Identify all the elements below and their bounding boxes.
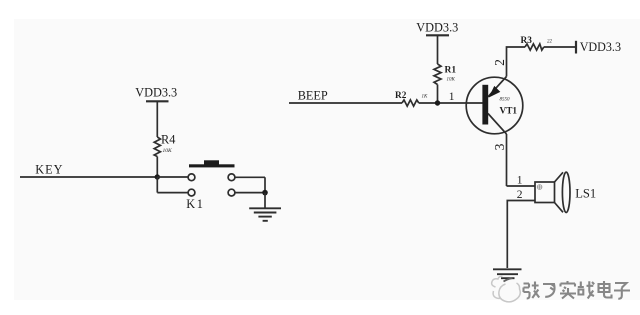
resistor R3: [525, 44, 544, 50]
wire: [437, 35, 439, 64]
node KEY wire: [20, 176, 157, 178]
svg-text:R2: R2: [395, 91, 407, 101]
svg-text:1K: 1K: [422, 95, 429, 100]
watermark logo cloud: [492, 276, 521, 301]
resistor R1: [434, 64, 441, 85]
junction: [155, 174, 160, 179]
svg-text:LS1: LS1: [575, 187, 596, 201]
fei: [543, 284, 555, 297]
shi: [560, 281, 576, 299]
svg-text:10K: 10K: [163, 148, 173, 154]
junction: [262, 190, 268, 196]
wire: [437, 85, 439, 104]
power VDD3.3 (top): [426, 34, 449, 36]
junction: [435, 100, 440, 105]
svg-text:10K: 10K: [447, 78, 456, 83]
svg-text:2: 2: [517, 189, 523, 201]
wire collector down: [506, 134, 508, 186]
resistor R4: [154, 137, 160, 157]
resistor R2: [402, 100, 419, 106]
svg-text:2: 2: [492, 59, 507, 66]
svg-text:VDD3.3: VDD3.3: [135, 86, 177, 100]
power VDD3.3 (left): [146, 100, 169, 102]
svg-text:R3: R3: [521, 36, 533, 46]
wire: [419, 102, 483, 104]
svg-text:VDD3.3: VDD3.3: [416, 21, 458, 35]
wire: [544, 46, 576, 48]
wire emitter to R3: [507, 47, 526, 77]
wire speaker pin 2 to ground: [507, 201, 535, 269]
power VDD3.3 (right): [575, 41, 577, 54]
speaker LS1: [535, 172, 570, 212]
wire to speaker pin 1: [507, 185, 536, 187]
ground (left): [249, 208, 281, 221]
svg-text:K1: K1: [186, 197, 204, 211]
wire: [264, 193, 266, 208]
svg-text:BEEP: BEEP: [298, 89, 328, 103]
svg-text:1: 1: [449, 91, 455, 103]
zi: [614, 283, 630, 299]
switch K1: [157, 174, 265, 196]
transistor VT1: [466, 77, 523, 135]
zhang: [524, 282, 540, 299]
ground (right): [493, 269, 522, 278]
wire: [156, 157, 158, 178]
node BEEP wire: [289, 102, 402, 104]
dian: [599, 281, 612, 298]
zhan: [578, 281, 594, 298]
svg-text:VDD3.3: VDD3.3: [580, 40, 621, 54]
svg-text:VT1: VT1: [500, 107, 518, 117]
svg-text:R4: R4: [161, 133, 175, 147]
watermark text (simplified CJK strokes): [524, 281, 631, 299]
wire: [156, 101, 158, 137]
svg-text:22: 22: [547, 40, 553, 45]
svg-text:KEY: KEY: [35, 162, 63, 176]
svg-text:1: 1: [517, 175, 523, 187]
svg-text:3: 3: [492, 143, 507, 150]
svg-text:R1: R1: [445, 65, 457, 75]
svg-text:8550: 8550: [500, 98, 511, 103]
